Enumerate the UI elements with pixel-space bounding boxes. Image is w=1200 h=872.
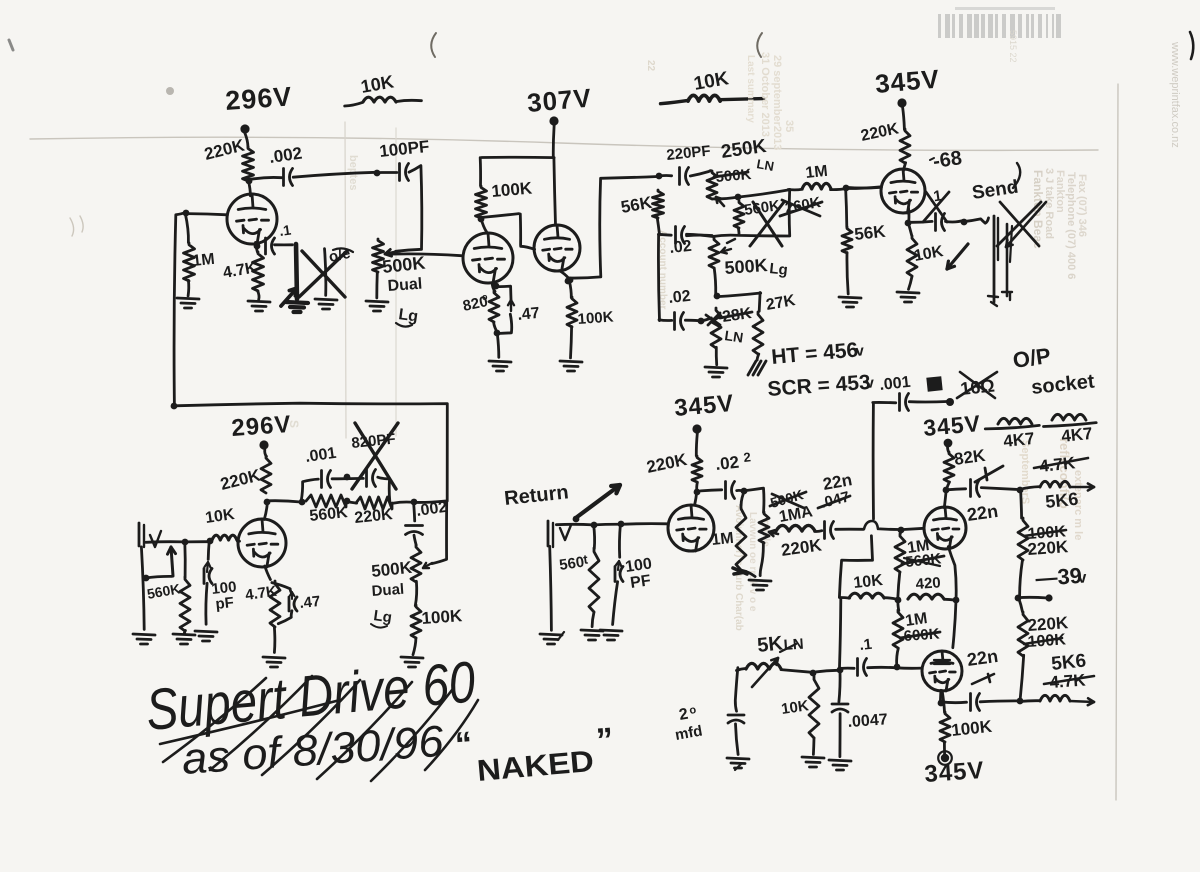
wire C18 to ladder bottom [980,699,1018,703]
node V7 grid [898,527,905,534]
label Dual P5 [371,581,405,600]
label 5K6 bottom [1050,650,1087,675]
wire R35 to ground [592,613,594,627]
bleed-through text col A [1031,168,1088,279]
node ladder bottom [1017,698,1024,705]
wire V4 cathode [907,208,910,221]
wire branch to R4 [479,158,482,186]
label 82K R24 [953,446,987,469]
deleted stub 2 [315,249,337,309]
wire P5 to R17 [415,581,416,605]
resistor R19 560K shunt [180,577,190,631]
svg-text:1M: 1M [711,530,735,549]
wire 10K right to node [884,598,897,600]
svg-text:22n: 22n [966,501,1000,525]
label 10K R18 [204,506,236,527]
label 820 [461,292,489,315]
node bottom wire [894,664,901,671]
pentode U8 [922,651,962,691]
label .002 C11 [415,499,448,520]
svg-text:Fankton: Fankton [1054,170,1066,213]
node 100pF return [618,521,625,528]
annotation SCR = 453V [767,371,876,401]
wire 307V to V3 plate [554,158,556,225]
wire P3 to R8 [712,190,788,199]
capacitor C21 .0047 [832,704,848,712]
svg-text:296V: 296V [224,81,293,116]
wire C17 to ladder [981,488,1018,490]
label 560K R9 [743,197,781,219]
svg-text:420: 420 [915,574,941,593]
wiper X P4 [706,313,720,325]
dark arrow into jack [143,547,176,581]
svg-text:Dual: Dual [371,581,405,600]
wire C19 left [840,667,854,670]
svg-text:.47: .47 [517,305,541,324]
wire wiper P1 to U2 grid [389,254,461,256]
wire grid node to R29 [899,531,902,534]
wire plate node to C1 [249,177,281,179]
node 10K shunt [810,670,817,677]
corner node loop [171,403,178,410]
svg-text:29 september2013: 29 september2013 [771,55,783,150]
label 220K R1 [202,135,247,163]
svg-text:.02: .02 [669,238,693,257]
node bass junction [714,293,721,300]
label .02 C7 [668,288,692,307]
resistor R12 220K (V4 plate) [900,129,910,163]
annotation HT = 456V [770,338,865,368]
label 500K P5 [370,558,413,581]
dark blob R22 bottom [733,568,747,574]
label 22n C15 [821,470,853,494]
label .1 C19 [859,636,873,654]
ground mark jack tip [988,296,998,306]
annotation Send [971,163,1020,204]
wire send to jack tip [963,218,988,223]
crossed label 600K [900,626,940,645]
crossed label 4.7K top [1034,453,1088,476]
label 220K R12 [859,120,900,145]
wire 10K left [840,596,850,599]
wire R3 to ground [258,291,260,300]
slant ground under R10 [748,361,766,375]
wiper arrow P3 [716,197,724,206]
label 5K6 top [1044,489,1079,512]
wiper arrowhead P1 [385,249,400,256]
wire mid up to R8 right [788,189,791,235]
svg-text:5K: 5K [756,632,784,657]
label 560K R15 [309,504,349,525]
faint bleed-through vertical line 1 [345,122,346,438]
wire R19 to ground [184,631,185,634]
node label 345V (V6) [673,390,735,422]
cross-out X over stubs [299,251,347,297]
X over C10 [352,423,398,489]
bleed-through text col E [1019,440,1031,504]
resistor R1 220K (plate load V1) [243,147,254,181]
svg-text:345V: 345V [924,757,986,788]
wire R7 down [657,217,659,234]
wire C11 to P5 [414,535,416,545]
wire C6 to P3 treble [690,171,711,176]
resistor R6 100K (V3 load) [567,297,577,327]
triode U6 [668,505,714,551]
resistor R4 100K (V2 plate) [476,186,487,218]
crossed label 100K upper [1024,523,1067,543]
wire 296V to R1 [245,133,248,147]
wire node to V6 [695,491,697,504]
triode U4 [881,169,925,213]
capacitor C4 .47 bypass [493,283,514,334]
wire R8 node down to R11 [846,188,847,227]
ground under return jack [540,632,564,644]
svg-text:.02: .02 [714,453,739,474]
ladder wire down [1021,490,1022,518]
wire R10 to ground [757,354,759,360]
wire to C21 [837,667,844,702]
resistor R21 220K (V6 plate) [692,456,702,482]
capacitor C10 820PF crossed [367,470,376,487]
wire return jack to V6 grid [556,524,666,525]
bleed-through text col F [745,52,795,150]
feedback vertical lower [840,599,841,667]
node bypass left [299,499,306,506]
node V1 cathode [254,243,261,250]
close quote [595,721,615,760]
node tone stack top [656,173,663,180]
gray flyspeck [166,87,174,95]
wire V3 cathode [560,271,569,278]
wire C8 to send jack [946,220,964,222]
supply terminal 296V lower [259,440,268,449]
node V3 cathode [565,278,572,285]
label 1M R29 [906,537,930,557]
socket squiggle resistors 4K7 4K7 [985,414,1096,429]
wire R8 left lead [788,188,802,191]
wire P7 to C20 [735,668,738,712]
wire C21 to ground [839,714,842,757]
svg-text:pF: pF [215,594,235,613]
wire P7 right to bus [781,670,841,673]
label .47 C13 [299,593,322,612]
wire plate to U7 [944,491,946,508]
capacitor C22 100pF return [613,525,623,625]
stray arc mark 2 [757,33,762,57]
bleed-through text col D [347,60,668,310]
wire rail to R2 [185,214,188,243]
capacitor C20 20mfd [728,715,744,723]
capacitor C6 220PF [680,168,689,185]
label 10K R34 [780,697,810,718]
wire long bottom loop [174,403,447,501]
ground under C12 [195,631,217,641]
svg-text:“: “ [454,725,474,764]
ground under R34 [802,757,824,767]
wire V5 cathode [265,566,271,580]
send jack sleeve contact [1007,224,1012,296]
crossed scribble 560K big X [750,202,784,246]
svg-text:100K: 100K [577,309,614,328]
dark correction arrow [281,288,297,306]
svg-text:Fax (07) 346: Fax (07) 346 [1076,174,1088,237]
bypass branch down [378,477,390,501]
triode U2 [463,233,513,283]
wire 307V down [552,125,556,157]
resistor R26 220K upper ladder [1018,518,1028,560]
label 1M R22 [711,530,735,549]
label .022 [714,449,751,474]
wire V7 cathode rail [948,547,956,648]
capacitor C3 .1 (cathode) [266,238,275,254]
node junction C1/C2 [374,170,381,177]
bleed-through text col C [733,505,771,631]
svg-text:5915 22: 5915 22 [1008,30,1018,63]
label .002 [268,144,303,167]
wire ladder mid [1020,560,1023,596]
capacitor C17 (top out) [971,480,980,497]
label 220K upper [1027,537,1070,559]
ground under R20 [263,657,285,667]
triode U7 [924,507,966,549]
wire .001 left lead [873,401,896,404]
potentiometer P4 28K bass [711,308,721,348]
svg-text:www.weprintfax.co.nz: www.weprintfax.co.nz [1169,41,1181,148]
right margin pen tick [1190,32,1193,59]
wire P6 to ground blob [760,542,763,575]
wire to R21 [696,432,697,455]
feedback vertical from bump [839,536,872,598]
capacitor C11 .002 lower [406,526,423,535]
title scrawl Supert Drive 60 [143,649,477,743]
label .0047 C21 [847,711,888,731]
ground under P4 [705,367,727,377]
capacitor C8 send [936,214,945,231]
wire node to R32 [896,599,900,610]
X over C8 [923,192,949,222]
crossed label 16 ohm [957,372,997,399]
svg-text:1M: 1M [805,163,829,182]
wire V2 plate to V3 grid [482,214,534,250]
wire tone mid [687,234,790,236]
label 500K crossed P3 [714,166,752,186]
node ladder top [1017,487,1024,494]
ground under R17 [401,657,423,667]
label 10K R13 [913,243,945,265]
svg-text:56K: 56K [853,222,887,244]
wire R33 to terminal [943,743,946,755]
node mid rail [895,597,902,604]
wire C5 to P2 [658,234,712,235]
label 100 pF C12 [211,578,238,613]
crossed label 820PF [351,430,397,452]
resistor R23 220K wiper series [776,525,815,531]
capacitor C15 22n coupling [825,522,834,539]
capacitor C14 .022 [726,482,735,499]
resistor R14 220K (V5 plate) [261,456,271,493]
label Return [503,481,569,510]
svg-text:100K: 100K [491,178,534,201]
send jack arrow mark [1006,202,1046,247]
resistor R25 5K6 out [1040,481,1070,487]
node 560K shunt [182,539,189,546]
node .0047 stub [0,0,1,1]
label -39V [1035,563,1088,591]
label 100K R17 [421,606,464,628]
wire V4 grid from R8 [847,186,881,189]
wire P4 to ground [715,347,718,364]
svg-text:Lavwun oe rrok v o e: Lavwun oe rrok v o e [747,512,758,612]
wire R2 to ground [187,280,190,296]
wire R34 to ground [812,738,815,755]
ground under R22 [749,580,771,590]
node -39V [1015,595,1022,602]
label LN P3 [755,156,775,174]
label Lg P1 [396,306,419,326]
wire C15 to V7 grid [836,521,900,530]
wire R8 to V4 grid [831,187,882,190]
label 4.7K R20 [244,583,278,604]
label NAKED [476,745,595,788]
faint page fold line right [1116,84,1118,800]
capacitor C13 .47 bypass [272,583,297,624]
svg-text:22n: 22n [966,646,1000,670]
bleed-through col left [287,30,1018,428]
wire cathode to C8 [908,220,932,224]
resistor R20 4.7K (V5 cathode) [270,581,280,627]
supply terminal 345V V6 [692,424,701,433]
wire .001 branch vertical [872,404,875,519]
wire plate node to C17 [947,489,966,490]
wire node to C2 [377,171,397,174]
label 220PF [666,142,712,164]
crossed label .1 C8 [928,187,943,206]
wire C7 to P4 [659,320,699,321]
wire C16 right [909,400,947,403]
resistor R8 1M horizontal [802,183,831,189]
resistor R34 10K shunt [809,676,819,738]
wire ladder mid 2 [1019,598,1023,612]
wire plate node right [267,501,300,502]
node R8/56K junction [843,185,850,192]
terminal dot 345V bottom [938,751,952,765]
ground under R5 [489,361,511,371]
open quote [454,725,474,764]
svg-text:35: 35 [783,120,795,132]
bypass mid wire [332,474,363,481]
svg-text:1M: 1M [192,251,216,270]
label 250K P3 [720,136,768,163]
return jack sleeve line [550,546,552,630]
wire C2 to pot wiper [396,166,422,252]
wire R16 to corner [393,501,446,503]
node 307V branch [482,156,554,159]
V mark at jack [150,531,161,547]
label 500K Lg P2 [724,255,789,279]
potentiometer P3 250K treble [707,171,717,199]
wire R23 to C15 [815,529,822,533]
wire R22 to ground [742,570,755,576]
loose resistor 10K sketch mid [661,95,764,103]
label Dual P1 [387,276,423,295]
node mid 560K/220K [344,498,351,505]
crossed label 560K [902,550,944,571]
resistor R28 5K6 out b [1040,695,1070,701]
svg-text:.0047: .0047 [847,711,888,731]
label 10K (loose resistor note) [359,72,395,97]
svg-text:22: 22 [645,60,656,72]
node 100pF shunt [207,538,214,545]
wire R20 to ground [273,626,276,652]
capacitor C18 (bottom out) [971,694,980,711]
label .47 [517,305,541,324]
resistor R24 82K [944,452,954,482]
svg-text:Lg: Lg [397,306,419,326]
node label 345V (V4) [874,63,941,99]
terminal dot C16 [946,398,954,406]
wire plate to V5 [264,502,267,520]
label .001 C16 [879,374,912,394]
wire tone top to C6 [658,174,671,177]
wire R18 to V5 grid [237,539,239,543]
resistor R11 56K right [842,227,852,253]
resistor R22 1M (V6 grid ref) [736,505,746,570]
svg-text:31 October 2013: 31 October 2013 [759,52,771,137]
triode U5 [238,519,286,567]
resistor R5 820 [489,291,499,322]
wire 56K chain down [658,235,659,321]
node V6 plate [694,489,701,496]
capacitor C19 .1 [858,659,867,676]
crossed label .047 [818,488,851,512]
resistor R17 100K lower [411,605,421,638]
svg-text:.001: .001 [879,374,912,394]
svg-text:Dual: Dual [387,276,423,295]
node P3 bottom [735,194,742,201]
svg-text:500K: 500K [724,255,768,278]
faint bleed-through vertical line 2 [395,128,397,436]
bleed-through text col B [1057,438,1084,540]
label 56K R11 [853,222,887,244]
node label 296V (lower) [231,411,293,442]
triode U3 [534,225,580,271]
wire+arrow top output [1020,484,1094,491]
wire R35 top [594,524,595,548]
label 220K lower [1027,613,1070,635]
node V2 plate [478,216,485,223]
label 28K P4 [720,305,753,326]
supply terminal 345V V7 [944,439,953,448]
wiper arrow P6 [769,530,778,536]
svg-text:”: ” [595,721,615,760]
ground under C21 [829,760,851,770]
crossed slash mark [975,466,1003,482]
svg-text:345V: 345V [874,63,941,99]
heavy deleted stub 1 [286,244,308,312]
label 220K R23 [780,535,824,560]
svg-text:Lg: Lg [769,260,789,279]
wire R29 to mid rail [898,572,900,598]
potentiometer P1 500K Dual [373,239,384,272]
wire to R24 [948,447,949,453]
label 100K R6 [577,309,614,328]
wire wiper from loop [432,501,447,563]
wire bass node right [718,293,761,297]
svg-text:Lg: Lg [372,607,393,626]
wire 420 to right rail [944,598,955,602]
label 1M R8 [805,163,829,182]
ground under C22 [600,630,622,640]
